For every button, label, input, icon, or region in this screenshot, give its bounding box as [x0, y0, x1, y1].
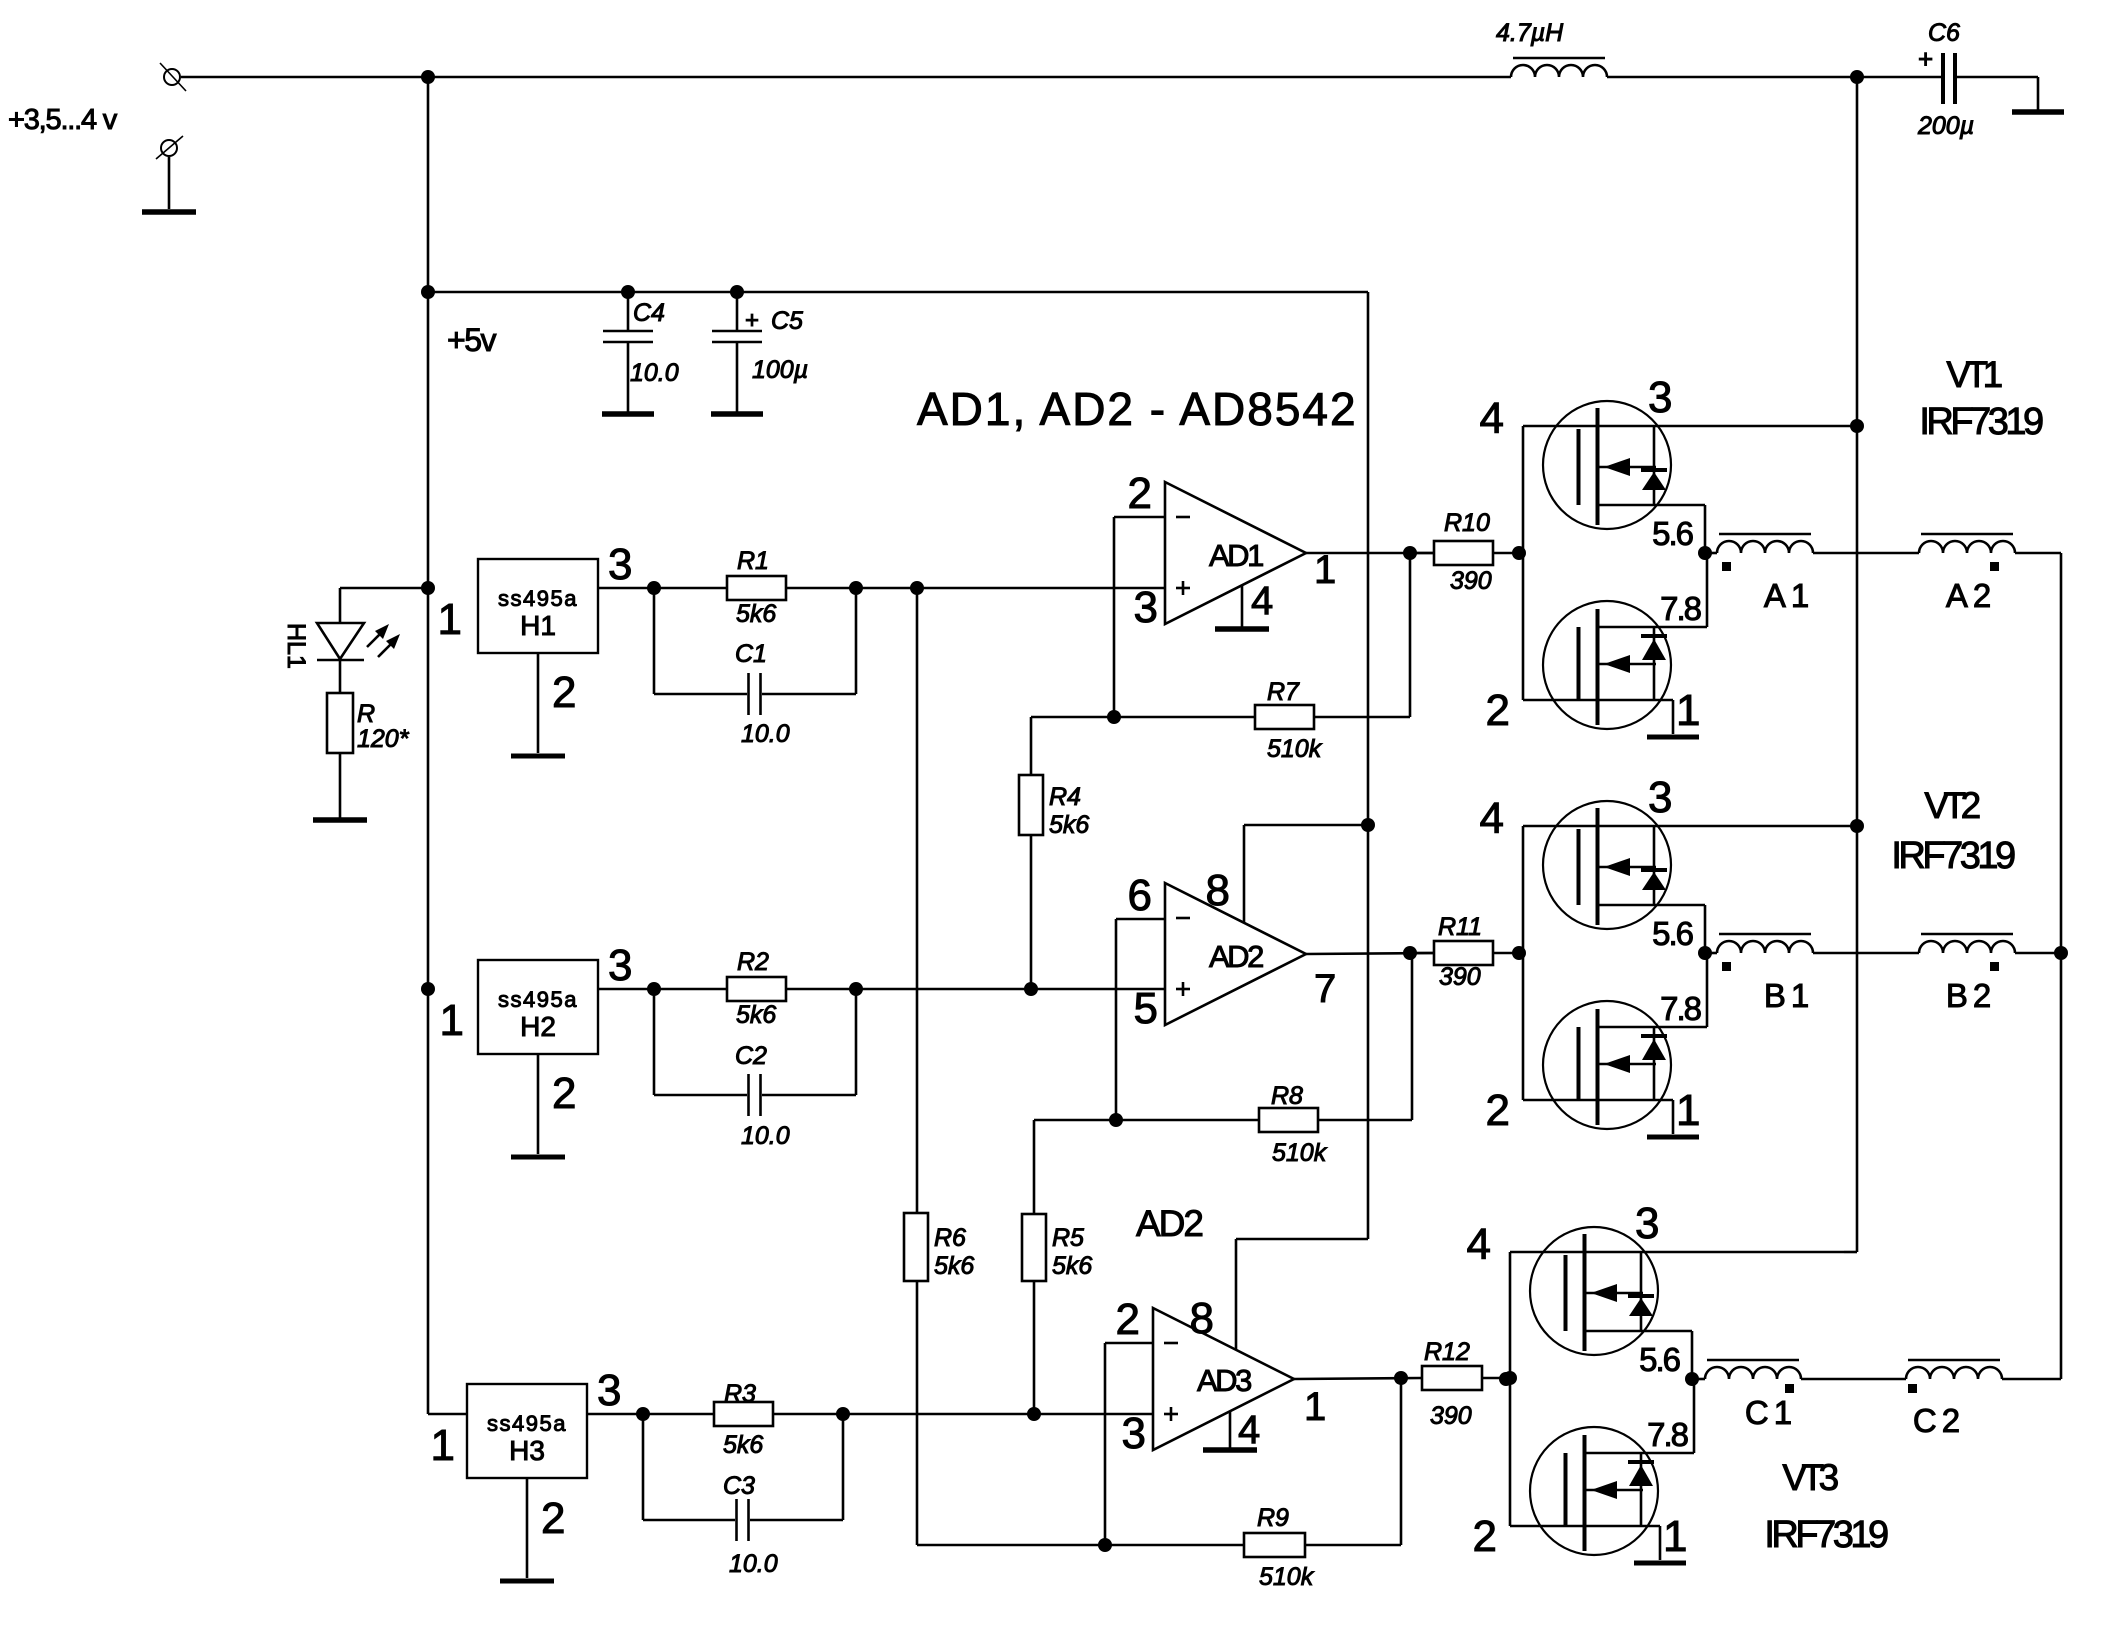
svg-text:100µ: 100µ — [752, 356, 808, 384]
svg-text:R10: R10 — [1444, 509, 1490, 537]
svg-text:1: 1 — [438, 595, 462, 644]
svg-text:ss495a: ss495a — [487, 1411, 567, 1436]
svg-text:IRF7319: IRF7319 — [1764, 1514, 1888, 1556]
svg-text:510k: 510k — [1259, 1563, 1315, 1591]
svg-text:R11: R11 — [1438, 913, 1482, 941]
svg-text:AD1: AD1 — [1209, 538, 1263, 573]
svg-text:R: R — [357, 700, 375, 728]
svg-text:C6: C6 — [1928, 19, 1960, 47]
svg-text:C1: C1 — [735, 640, 767, 668]
svg-text:AD3: AD3 — [1197, 1363, 1251, 1398]
svg-text:+3,5...4 v: +3,5...4 v — [8, 104, 118, 136]
svg-text:5k6: 5k6 — [934, 1252, 974, 1280]
svg-text:A1: A1 — [1764, 577, 1814, 614]
svg-text:10.0: 10.0 — [729, 1550, 778, 1578]
svg-text:C3: C3 — [723, 1472, 755, 1500]
svg-text:VT3: VT3 — [1782, 1457, 1837, 1498]
svg-text:B2: B2 — [1946, 977, 1996, 1014]
svg-text:510k: 510k — [1272, 1139, 1328, 1167]
svg-text:+: + — [1918, 44, 1933, 74]
svg-text:3: 3 — [1122, 1409, 1146, 1458]
svg-text:120*: 120* — [357, 725, 410, 753]
svg-text:C5: C5 — [771, 307, 803, 335]
svg-text:H3: H3 — [509, 1435, 545, 1466]
svg-text:R5: R5 — [1052, 1224, 1084, 1252]
svg-text:5k6: 5k6 — [736, 600, 776, 628]
svg-text:390: 390 — [1439, 963, 1481, 991]
svg-text:C2: C2 — [735, 1042, 767, 1070]
svg-text:C1: C1 — [1745, 1394, 1797, 1431]
svg-text:1: 1 — [1304, 1385, 1326, 1429]
svg-text:2: 2 — [541, 1494, 565, 1543]
svg-text:R3: R3 — [724, 1380, 756, 1408]
svg-text:390: 390 — [1450, 567, 1492, 595]
svg-text:R8: R8 — [1271, 1082, 1303, 1110]
svg-text:3: 3 — [608, 941, 632, 990]
svg-text:IRF7319: IRF7319 — [1919, 401, 2043, 443]
svg-text:B1: B1 — [1764, 977, 1814, 1014]
svg-text:8: 8 — [1190, 1294, 1214, 1343]
svg-text:10.0: 10.0 — [741, 1122, 790, 1150]
svg-text:3: 3 — [608, 540, 632, 589]
svg-text:5k6: 5k6 — [1049, 811, 1089, 839]
svg-text:5: 5 — [1134, 984, 1158, 1033]
svg-text:AD1, AD2 - AD8542: AD1, AD2 - AD8542 — [917, 383, 1358, 435]
svg-text:10.0: 10.0 — [630, 359, 679, 387]
svg-text:390: 390 — [1430, 1402, 1472, 1430]
svg-text:510k: 510k — [1267, 735, 1323, 763]
svg-text:+: + — [745, 307, 759, 334]
svg-text:6: 6 — [1128, 871, 1152, 920]
svg-text:R1: R1 — [737, 547, 769, 575]
svg-text:5k6: 5k6 — [736, 1001, 776, 1029]
svg-text:ss495a: ss495a — [498, 987, 578, 1012]
svg-text:8: 8 — [1206, 866, 1230, 915]
svg-text:VT2: VT2 — [1924, 785, 1979, 826]
svg-text:2: 2 — [552, 668, 576, 717]
svg-text:A2: A2 — [1946, 577, 1996, 614]
svg-text:4: 4 — [1251, 579, 1273, 623]
svg-text:3: 3 — [1134, 583, 1158, 632]
svg-text:3: 3 — [597, 1366, 621, 1415]
svg-text:1: 1 — [440, 996, 464, 1045]
svg-text:HL1: HL1 — [282, 623, 310, 669]
svg-text:AD2: AD2 — [1209, 939, 1263, 974]
svg-text:1: 1 — [431, 1421, 455, 1470]
svg-text:ss495a: ss495a — [498, 586, 578, 611]
svg-text:R6: R6 — [934, 1224, 966, 1252]
svg-text:C4: C4 — [633, 299, 665, 327]
svg-text:2: 2 — [1128, 469, 1152, 518]
svg-text:5k6: 5k6 — [1052, 1252, 1092, 1280]
svg-text:4: 4 — [1238, 1408, 1260, 1452]
svg-text:R2: R2 — [737, 948, 769, 976]
svg-text:200µ: 200µ — [1917, 112, 1974, 140]
svg-text:7: 7 — [1314, 967, 1336, 1011]
svg-text:2: 2 — [552, 1069, 576, 1118]
svg-text:2: 2 — [1116, 1295, 1140, 1344]
svg-text:AD2: AD2 — [1136, 1203, 1202, 1244]
svg-text:4.7µH: 4.7µH — [1496, 19, 1564, 47]
svg-text:+5v: +5v — [447, 322, 496, 358]
svg-text:IRF7319: IRF7319 — [1891, 835, 2015, 877]
svg-text:10.0: 10.0 — [741, 720, 790, 748]
svg-text:R12: R12 — [1424, 1338, 1470, 1366]
svg-text:1: 1 — [1314, 548, 1336, 592]
svg-text:R4: R4 — [1049, 783, 1081, 811]
svg-text:5k6: 5k6 — [723, 1431, 763, 1459]
svg-text:R9: R9 — [1257, 1504, 1289, 1532]
svg-text:VT1: VT1 — [1946, 354, 2001, 395]
svg-text:C2: C2 — [1913, 1402, 1965, 1439]
svg-text:H2: H2 — [520, 1011, 556, 1042]
svg-text:H1: H1 — [520, 610, 556, 641]
svg-text:R7: R7 — [1267, 678, 1300, 706]
